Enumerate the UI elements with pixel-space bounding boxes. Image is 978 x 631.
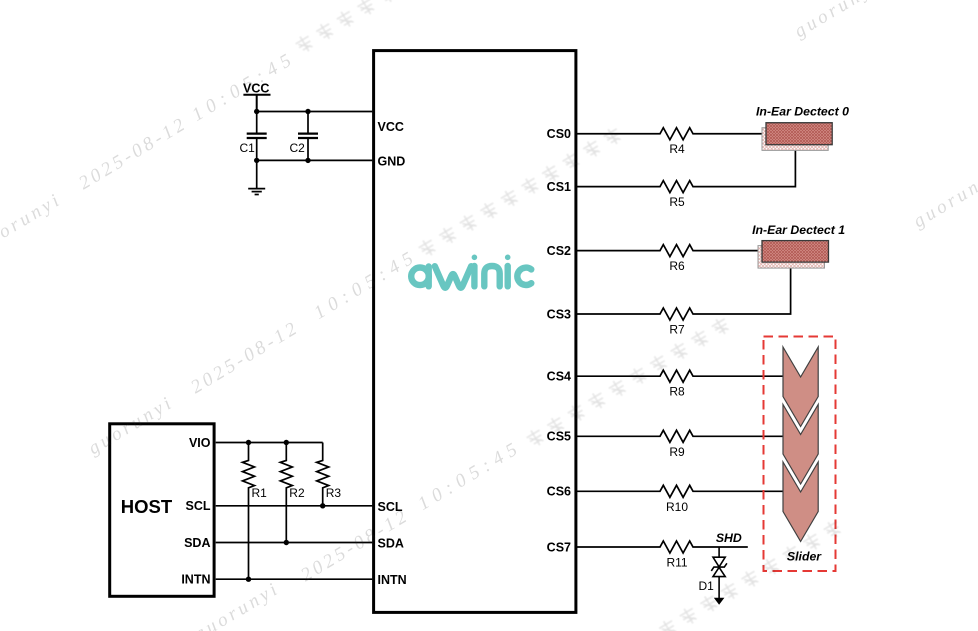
resistor R2	[280, 443, 292, 543]
capacitor C1	[256, 112, 258, 161]
svg-text:CS4: CS4	[547, 370, 571, 384]
slider arrow 1	[783, 347, 818, 427]
IC U1 box	[374, 51, 576, 613]
wire CS3 + resistor R7	[577, 268, 791, 321]
svg-text:C2: C2	[290, 141, 306, 155]
watermark line2 cjk	[417, 125, 624, 259]
svg-text:HOST: HOST	[121, 496, 173, 517]
svg-text:CS3: CS3	[547, 307, 571, 321]
svg-text:R10: R10	[666, 500, 688, 514]
svg-text:R7: R7	[669, 323, 685, 337]
arrow terminal below D1	[714, 598, 725, 605]
awinic logo	[411, 266, 531, 288]
watermark line2 time	[310, 245, 422, 324]
watermark line2 guorunyi	[85, 392, 178, 459]
svg-text:R1: R1	[252, 486, 268, 500]
svg-text:In-Ear Dectect 1: In-Ear Dectect 1	[752, 223, 845, 237]
svg-text:CS2: CS2	[547, 244, 571, 258]
svg-text:SCL: SCL	[186, 499, 211, 513]
svg-text:R2: R2	[289, 486, 305, 500]
wire CS5 + resistor R9	[577, 430, 783, 442]
HOST block	[110, 424, 214, 597]
watermark line1 date	[75, 113, 191, 194]
watermark line3 date	[297, 505, 413, 586]
svg-text:R8: R8	[669, 385, 685, 399]
svg-text:CS5: CS5	[547, 430, 571, 444]
svg-text:R9: R9	[669, 445, 685, 459]
svg-text:D1: D1	[699, 579, 715, 593]
svg-text:VIO: VIO	[189, 436, 211, 450]
junction dots VCC rail	[254, 109, 259, 114]
junction dot VIO-R2	[284, 440, 289, 445]
svg-text:R4: R4	[669, 142, 685, 156]
svg-text:CS6: CS6	[547, 485, 571, 499]
diode D1	[711, 547, 727, 598]
svg-text:R5: R5	[669, 195, 685, 209]
junction dots GND rail	[254, 158, 259, 163]
svg-text:2025-08-12: 2025-08-12	[75, 113, 191, 194]
wire SDA	[216, 542, 373, 544]
svg-text:INTN: INTN	[181, 573, 210, 587]
svg-text:VCC: VCC	[378, 120, 404, 134]
svg-text:GND: GND	[378, 154, 406, 168]
resistor R3	[317, 443, 329, 506]
wire VIO	[216, 442, 323, 444]
touch pad 1 front	[762, 241, 829, 263]
svg-text:R3: R3	[326, 486, 342, 500]
resistor R1	[243, 443, 255, 580]
svg-text:guorunyi: guorunyi	[910, 165, 978, 232]
junction dot SDA-R2	[284, 540, 289, 545]
watermark line1 time	[188, 47, 300, 126]
wire INTN	[216, 578, 373, 580]
svg-text:CS1: CS1	[547, 180, 571, 194]
watermark line4 cjk	[637, 518, 844, 631]
watermark line2 date	[187, 317, 303, 398]
ground	[248, 160, 265, 194]
wire CS2 + resistor R6	[577, 245, 762, 257]
svg-text:CS7: CS7	[547, 540, 571, 554]
watermark line1 guorunyi	[0, 189, 66, 256]
slider arrow 3	[783, 462, 818, 542]
svg-text:INTN: INTN	[378, 573, 407, 587]
svg-text:10:05:45: 10:05:45	[188, 47, 300, 126]
wire CS6 + resistor R10	[577, 485, 783, 497]
svg-text:C1: C1	[240, 141, 256, 155]
svg-text:guorunyi: guorunyi	[0, 189, 66, 256]
touch pad 0 back	[762, 128, 828, 151]
slider dashed box	[764, 337, 836, 572]
wire CS7 + resistor R11	[577, 541, 748, 553]
VCC power symbol	[243, 95, 270, 112]
junction dot VIO-R1	[246, 440, 251, 445]
watermark line1 cjk	[294, 0, 418, 55]
svg-text:In-Ear Dectect 0: In-Ear Dectect 0	[756, 105, 849, 119]
capacitor C2	[307, 112, 309, 161]
svg-text:SHD: SHD	[716, 531, 742, 545]
watermark line3 cjk	[525, 315, 732, 449]
wire SCL	[216, 505, 373, 507]
touch pad 1 back	[758, 246, 825, 269]
slider arrow 2	[783, 405, 818, 485]
wire GND rail to pin	[257, 159, 373, 161]
touch pad 0 front	[766, 123, 832, 145]
watermark line2 guorunyi b	[791, 0, 884, 42]
junction dot INTN-R1	[246, 577, 251, 582]
watermark line3 guorunyi b	[910, 165, 978, 232]
junction dot SCL-R3	[320, 503, 325, 508]
watermark line3 guorunyi	[191, 578, 284, 631]
svg-text:guorunyi: guorunyi	[791, 0, 884, 42]
svg-text:CS0: CS0	[547, 127, 571, 141]
wire CS0 + resistor R4	[577, 128, 766, 140]
svg-text:R6: R6	[669, 259, 685, 273]
svg-text:R11: R11	[666, 556, 687, 570]
svg-text:SDA: SDA	[184, 536, 210, 550]
wire CS1 + resistor R5	[577, 150, 795, 193]
wire CS4 + resistor R8	[577, 370, 783, 382]
wire VCC rail to pin	[257, 111, 373, 113]
svg-text:2025-08-12: 2025-08-12	[187, 317, 303, 398]
watermark line3 time	[414, 436, 526, 515]
